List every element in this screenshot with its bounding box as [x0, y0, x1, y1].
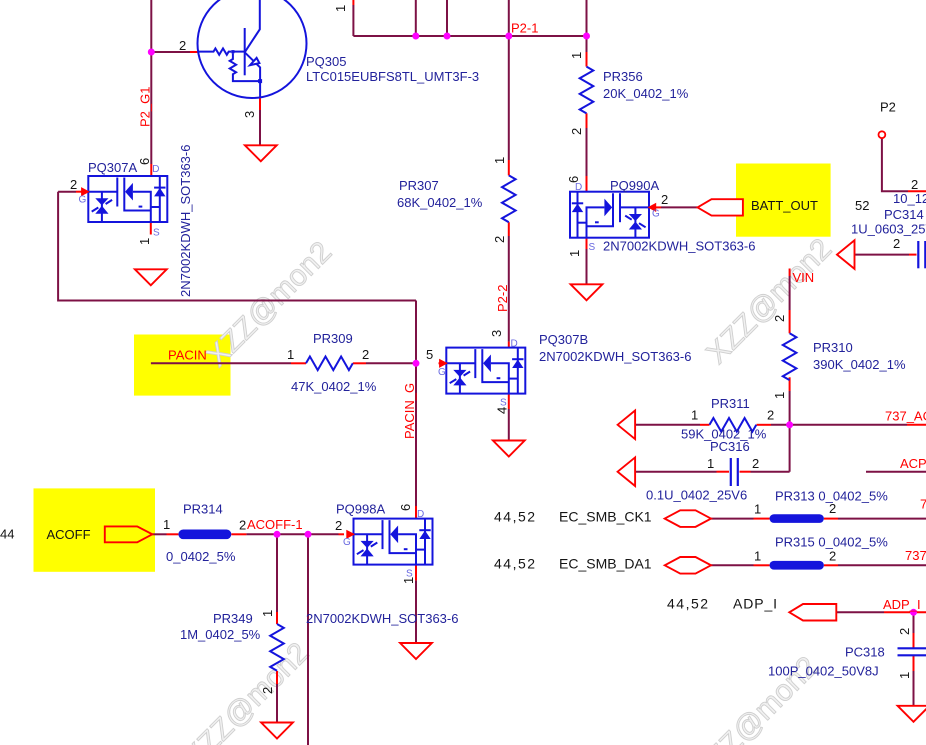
- ground at PR349: [261, 723, 293, 739]
- svg-text:3: 3: [242, 111, 257, 118]
- net label box ACOFF (yellow): [34, 488, 156, 571]
- junction node bus x415: [412, 33, 419, 40]
- pin stub PR314 pin2: [231, 533, 246, 535]
- pin stub net ADP_I red segment: [884, 611, 926, 613]
- resistor PR310 390K: [783, 333, 797, 380]
- transistor PQ990A (dual-FET half, mirrored): [570, 192, 656, 238]
- svg-text:ACOFF-1: ACOFF-1: [247, 517, 303, 532]
- svg-text:PQ990A: PQ990A: [610, 178, 659, 193]
- svg-text:S: S: [153, 228, 160, 239]
- pin stub PR310 pin2: [789, 310, 791, 333]
- svg-text:20K_0402_1%: 20K_0402_1%: [603, 86, 689, 101]
- svg-text:G: G: [79, 195, 87, 206]
- svg-text:EC_SMB_CK1: EC_SMB_CK1: [559, 508, 652, 524]
- wire net P2_G1 from top edge: [150, 0, 152, 52]
- pin stub PR313 pin1: [754, 518, 770, 520]
- svg-text:2: 2: [335, 518, 342, 533]
- net label box BATT_OUT (yellow): [736, 164, 831, 237]
- ground at PQ998A source: [400, 643, 432, 659]
- svg-text:2: 2: [179, 38, 186, 53]
- svg-text:2: 2: [752, 456, 759, 471]
- svg-text:2: 2: [767, 408, 774, 423]
- pin stub PR307 pin1: [508, 160, 510, 175]
- svg-text:737: 737: [905, 548, 926, 563]
- junction node 737_AC/VIN: [786, 421, 793, 428]
- pin stub PQ307B drain pin3: [508, 342, 510, 348]
- pin stub PC316 pin2: [740, 471, 751, 473]
- svg-text:44,52: 44,52: [494, 508, 537, 524]
- svg-text:G: G: [438, 367, 446, 378]
- svg-text:PQ307A: PQ307A: [88, 160, 137, 175]
- ground at PQ307B source: [493, 441, 525, 457]
- svg-text:PR315 0_0402_5%: PR315 0_0402_5%: [775, 535, 888, 550]
- pin stub PR311 pin1: [700, 424, 710, 426]
- svg-text:6: 6: [137, 158, 152, 165]
- svg-text:PACIN_G: PACIN_G: [402, 383, 417, 439]
- portal triangle to PC314 (off-page): [837, 240, 855, 269]
- svg-text:2: 2: [911, 177, 918, 192]
- svg-text:1U_0603_25V: 1U_0603_25V: [851, 222, 926, 237]
- portal triangle to PC316 (off-page): [618, 457, 636, 486]
- wire PR309 to node: [366, 362, 416, 364]
- svg-text:2: 2: [569, 128, 584, 135]
- pin stub PQ305 base pin2: [190, 51, 198, 53]
- wire PR349 to ground: [276, 684, 278, 723]
- svg-text:1: 1: [333, 5, 348, 12]
- svg-text:68K_0402_1%: 68K_0402_1%: [397, 195, 483, 210]
- svg-text:5: 5: [426, 347, 433, 362]
- wire PQ998A source to ground: [415, 580, 417, 643]
- svg-text:1: 1: [754, 501, 761, 516]
- pin stub PQ307A gate pin2: [76, 191, 82, 193]
- port EC_SMB_CK1 (bidir hex): [665, 510, 711, 527]
- pin stub PR310 pin1: [789, 377, 791, 391]
- capacitor PC314 1U: [918, 241, 925, 268]
- svg-text:PACIN: PACIN: [168, 348, 207, 363]
- svg-text:ACOFF: ACOFF: [47, 527, 91, 542]
- wire PR349 column: [276, 534, 278, 612]
- svg-text:PR311: PR311: [711, 396, 750, 411]
- svg-text:2: 2: [829, 501, 836, 516]
- wire EC_SMB_DA1 row: [711, 564, 926, 566]
- svg-text:0_0402_5%: 0_0402_5%: [166, 549, 236, 564]
- svg-text:2: 2: [893, 236, 900, 251]
- svg-text:S: S: [589, 242, 596, 253]
- pin stub PR315 pin1: [754, 564, 770, 566]
- wire ACOFF-1 row: [246, 533, 338, 535]
- junction node PACIN G: [413, 360, 420, 367]
- pin stub PQ305 emitter pin3: [259, 98, 261, 110]
- pin stub PQ998A gate pin2: [339, 533, 345, 535]
- pin stub PQ990A drain pin6: [586, 176, 588, 192]
- svg-text:6: 6: [398, 504, 413, 511]
- svg-text:1: 1: [897, 672, 912, 679]
- pin stub PQ998A source pin1: [415, 565, 417, 581]
- port ACOFF (output arrow): [105, 526, 153, 542]
- transistor PQ307B (dual-FET half, 2N7002KDWH): [439, 348, 525, 394]
- pin stub PR311 pin2: [757, 424, 772, 426]
- pin stub PQ307B source pin4: [508, 394, 510, 409]
- svg-text:P2-1: P2-1: [511, 21, 538, 36]
- port BATT_OUT (input arrow): [698, 199, 743, 215]
- wire PC318 to ground: [913, 612, 915, 706]
- pin stub PQ307B gate pin5: [439, 362, 442, 364]
- pin stub PR349 pin1: [276, 612, 278, 624]
- svg-text:2N7002KDWH_SOT363-6: 2N7002KDWH_SOT363-6: [539, 349, 691, 364]
- ground at PQ307A source: [135, 269, 167, 285]
- svg-text:44,52: 44,52: [667, 596, 710, 612]
- pin stub PQ990A gate pin2: [656, 206, 661, 208]
- svg-text:1: 1: [137, 238, 152, 245]
- svg-text:P2: P2: [880, 100, 896, 115]
- svg-text:1: 1: [492, 157, 507, 164]
- net label box PACIN (yellow): [134, 335, 231, 396]
- svg-text:2: 2: [239, 518, 246, 533]
- wire PC314 from portal: [855, 254, 909, 256]
- pin stub PQ998A drain pin6: [415, 506, 417, 519]
- svg-text:EC_SMB_DA1: EC_SMB_DA1: [559, 555, 652, 571]
- wire PR356 to PQ990A drain: [586, 128, 588, 176]
- pin stub PR314 pin1: [167, 533, 179, 535]
- svg-text:390K_0402_1%: 390K_0402_1%: [813, 357, 906, 372]
- svg-text:2N7002KDWH_SOT363-6: 2N7002KDWH_SOT363-6: [306, 611, 458, 626]
- wire node to PQ305 base: [151, 51, 190, 53]
- pin stub PC316 pin1: [717, 471, 730, 473]
- wire net P2-2 segment: [508, 236, 510, 342]
- svg-text:D: D: [417, 509, 424, 520]
- svg-text:44,52: 44,52: [494, 555, 537, 571]
- svg-text:PC316: PC316: [710, 439, 750, 454]
- svg-text:2: 2: [829, 548, 836, 563]
- pin stub PACIN to PR309 pin1: [291, 362, 306, 364]
- wire net P2-1 center column: [508, 0, 510, 160]
- pin stub top of column x353: [352, 0, 354, 5]
- pin stub PR356 pin1: [586, 52, 588, 67]
- wire PR356 branch: [586, 0, 588, 52]
- resistor PR311 59K: [710, 418, 757, 432]
- wire stub column x415: [415, 0, 417, 36]
- svg-text:1: 1: [287, 347, 294, 362]
- resistor PR307 68K: [502, 175, 516, 222]
- pin stub PC318 pin2: [913, 633, 915, 648]
- svg-text:2: 2: [492, 236, 507, 243]
- svg-text:1: 1: [567, 250, 582, 257]
- wire P2 connector pin: [882, 138, 908, 191]
- junction node ACOFF-1 b: [305, 531, 312, 538]
- svg-text:1: 1: [707, 456, 714, 471]
- transistor PQ305 (digital NPN LTC015): [198, 0, 307, 98]
- svg-text:PQ998A: PQ998A: [336, 502, 385, 517]
- svg-text:D: D: [511, 339, 518, 350]
- svg-text:1: 1: [163, 517, 170, 532]
- svg-text:G: G: [652, 209, 660, 220]
- svg-text:1M_0402_5%: 1M_0402_5%: [180, 627, 261, 642]
- wire ACOFF-1 to bottom edge: [307, 534, 309, 745]
- ground at PQ990A source: [571, 284, 603, 300]
- svg-text:S: S: [500, 397, 507, 408]
- wire EC_SMB_CK1 row: [711, 518, 926, 520]
- svg-text:1: 1: [754, 548, 761, 563]
- svg-text:100P_0402_50V8J: 100P_0402_50V8J: [768, 664, 879, 679]
- svg-text:2: 2: [772, 315, 787, 322]
- wire PACIN_G column: [415, 301, 417, 507]
- svg-text:D: D: [152, 164, 159, 175]
- svg-text:PR309: PR309: [313, 331, 353, 346]
- wire PQ307B source to ground: [508, 409, 510, 441]
- resistor PR309 47K: [306, 357, 353, 371]
- svg-text:ADP_I: ADP_I: [883, 597, 921, 612]
- wire net VIN column: [789, 276, 791, 310]
- svg-text:10_12: 10_12: [893, 191, 926, 206]
- wire stub column x353: [352, 5, 354, 36]
- svg-text:2N7002KDWH_SOT363-6: 2N7002KDWH_SOT363-6: [178, 145, 193, 297]
- svg-text:1: 1: [260, 610, 275, 617]
- svg-text:1: 1: [772, 392, 787, 399]
- svg-text:2N7002KDWH_SOT363-6: 2N7002KDWH_SOT363-6: [603, 239, 755, 254]
- svg-text:P2-2: P2-2: [495, 285, 510, 312]
- svg-text:ACP: ACP: [900, 456, 926, 471]
- svg-text:PR349: PR349: [213, 611, 253, 626]
- wire stub column x446: [446, 0, 448, 36]
- pin stub PC314 pin2: [909, 254, 917, 256]
- wire P2_G1 down to PQ307A drain: [150, 52, 152, 164]
- svg-text:44: 44: [0, 527, 14, 542]
- connector pin P2: [879, 131, 886, 138]
- svg-text:ADP_I: ADP_I: [733, 596, 778, 612]
- svg-text:LTC015EUBFS8TL_UMT3F-3: LTC015EUBFS8TL_UMT3F-3: [306, 69, 479, 84]
- portal triangle to PR311 (off-page): [618, 411, 636, 440]
- svg-text:XZZ@mon2: XZZ@mon2: [177, 636, 315, 745]
- wire PC316 row left: [635, 471, 717, 473]
- resistor PR313 0-ohm bar: [770, 514, 824, 523]
- svg-text:VIN: VIN: [793, 270, 815, 285]
- capacitor PC316 0.1U: [731, 458, 738, 486]
- capacitor PC318 100P: [898, 648, 926, 655]
- svg-text:0.1U_0402_25V6: 0.1U_0402_25V6: [646, 488, 747, 503]
- ground at PC318: [898, 706, 926, 722]
- ground at PQ305 pin3: [245, 145, 277, 161]
- svg-text:47K_0402_1%: 47K_0402_1%: [291, 379, 377, 394]
- pin stub PR349 pin2: [276, 671, 278, 684]
- svg-text:2: 2: [661, 192, 668, 207]
- resistor PR349 1M: [270, 624, 284, 671]
- wire left riser to PACIN node: [58, 192, 416, 301]
- pin stub PQ990A source pin1: [586, 238, 588, 249]
- junction node ACOFF-1 a: [274, 531, 281, 538]
- svg-text:G: G: [343, 537, 351, 548]
- svg-text:PC314: PC314: [884, 207, 924, 222]
- svg-text:PR310: PR310: [813, 340, 853, 355]
- svg-text:737_AC: 737_AC: [885, 409, 926, 424]
- wire ACOFF row: [152, 533, 166, 535]
- resistor PR314 0-ohm bar: [178, 530, 231, 540]
- wire PR310 to 737_AC node: [789, 391, 791, 425]
- svg-text:PR314: PR314: [183, 502, 223, 517]
- svg-text:XZZ@mon2: XZZ@mon2: [200, 235, 338, 373]
- svg-text:PQ307B: PQ307B: [539, 332, 588, 347]
- wire PR311 to node: [771, 424, 790, 426]
- svg-text:2: 2: [70, 177, 77, 192]
- wire net ACP: [866, 471, 926, 473]
- pin stub VIN top: [789, 269, 791, 277]
- transistor PQ998A (dual-FET half, 2N7002KDWH): [346, 519, 432, 565]
- svg-text:PQ305: PQ305: [306, 54, 346, 69]
- pin stub PR356 pin2: [586, 113, 588, 128]
- port EC_SMB_DA1 (bidir hex): [665, 557, 711, 574]
- pin stub PR307 pin2: [508, 222, 510, 236]
- svg-text:1: 1: [569, 52, 584, 59]
- wire ADP_I row: [836, 611, 884, 613]
- wire PQ990A source to ground: [586, 249, 588, 284]
- svg-text:2: 2: [260, 687, 275, 694]
- svg-text:3: 3: [489, 330, 504, 337]
- svg-text:1: 1: [691, 408, 698, 423]
- svg-text:PR307: PR307: [399, 178, 439, 193]
- wire PQ307A gate: [58, 191, 76, 193]
- junction node ADP_I: [910, 609, 917, 616]
- pin stub PQ307A source pin1: [150, 222, 152, 235]
- resistor PR315 0-ohm bar: [770, 561, 824, 570]
- wire PC316 to VIN node: [751, 425, 790, 472]
- svg-text:52: 52: [855, 198, 869, 213]
- wire PQ990A gate to BATT_OUT port: [661, 206, 698, 208]
- wire net 737_AC: [790, 424, 907, 426]
- pin stub P2 pin wire right end: [908, 190, 926, 192]
- wire PACIN row: [151, 362, 291, 364]
- svg-text:2: 2: [362, 347, 369, 362]
- junction node bus P2-1: [505, 33, 512, 40]
- junction node bus x586: [583, 33, 590, 40]
- svg-text:2: 2: [897, 628, 912, 635]
- pin stub PQ307A drain pin6: [150, 164, 152, 176]
- junction node bus x446: [444, 33, 451, 40]
- pin stub PR313 pin2: [824, 518, 838, 520]
- svg-text:4: 4: [495, 407, 510, 414]
- transistor PQ307A (dual-FET half, 2N7002KDWH): [81, 176, 167, 222]
- pin stub PR315 pin2: [824, 564, 838, 566]
- junction node P2_G1: [148, 49, 155, 56]
- wire top bus: [353, 35, 586, 37]
- resistor PR356 20K: [580, 67, 594, 114]
- pin stub net 737_AC red end: [907, 424, 926, 426]
- wire PR311 row: [635, 424, 700, 426]
- svg-text:PC318: PC318: [845, 645, 885, 660]
- svg-text:1: 1: [401, 577, 416, 584]
- svg-text:P2_G1: P2_G1: [138, 87, 153, 127]
- wire PQ305 emitter to ground: [259, 110, 261, 145]
- svg-text:PR356: PR356: [603, 69, 643, 84]
- pin stub PC318 pin1: [913, 655, 915, 671]
- port ADP_I (input arrow): [789, 604, 836, 621]
- svg-text:BATT_OUT: BATT_OUT: [751, 198, 818, 213]
- svg-text:6: 6: [566, 176, 581, 183]
- pin stub PR309 pin2: [353, 362, 366, 364]
- svg-text:73: 73: [920, 497, 926, 512]
